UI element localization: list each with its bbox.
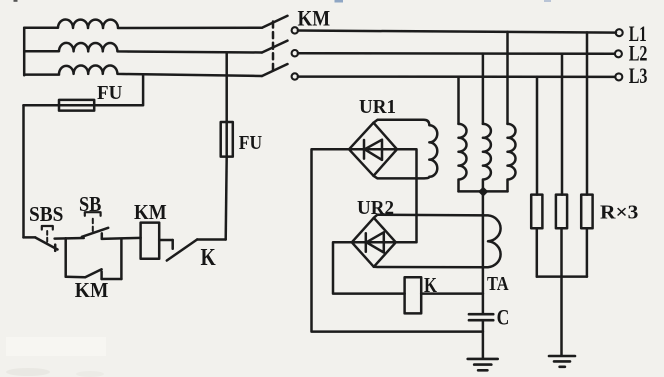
svg-text:C: C [497,305,510,330]
svg-text:SBS: SBS [29,202,63,226]
svg-text:KM: KM [298,5,331,30]
svg-text:UR1: UR1 [359,96,396,118]
svg-text:FU: FU [97,82,122,104]
svg-text:R×3: R×3 [600,202,638,224]
svg-text:KM: KM [134,200,167,224]
svg-text:UR2: UR2 [357,197,394,219]
svg-text:L3: L3 [629,63,648,88]
svg-text:KM: KM [75,278,109,302]
svg-text:L2: L2 [629,41,648,66]
svg-text:TA: TA [487,273,509,295]
svg-text:SB: SB [79,192,101,216]
svg-text:K: K [201,245,216,271]
svg-text:K: K [424,273,438,297]
svg-text:FU: FU [239,132,262,154]
